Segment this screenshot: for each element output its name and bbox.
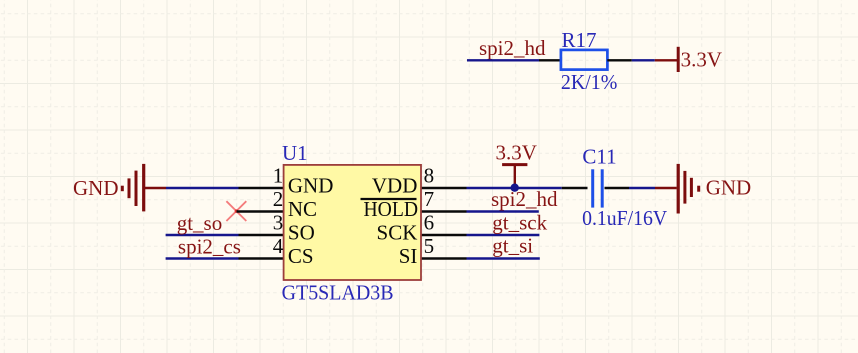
- svg-text:spi2_cs: spi2_cs: [178, 235, 241, 259]
- svg-text:3.3V: 3.3V: [681, 48, 722, 72]
- svg-text:1: 1: [273, 163, 284, 187]
- svg-text:spi2_hd: spi2_hd: [491, 187, 558, 211]
- svg-text:5: 5: [424, 234, 435, 258]
- svg-text:SCK: SCK: [377, 221, 418, 245]
- svg-text:GND: GND: [706, 176, 752, 200]
- svg-text:6: 6: [424, 210, 435, 234]
- svg-text:R17: R17: [562, 28, 597, 52]
- svg-text:2: 2: [273, 187, 284, 211]
- svg-text:GND: GND: [288, 174, 334, 198]
- svg-text:NC: NC: [288, 197, 317, 221]
- svg-text:gt_so: gt_so: [177, 211, 223, 235]
- svg-text:C11: C11: [582, 145, 616, 169]
- svg-text:7: 7: [424, 187, 435, 211]
- svg-text:spi2_hd: spi2_hd: [479, 36, 546, 60]
- svg-text:HOLD: HOLD: [364, 197, 419, 221]
- svg-text:VDD: VDD: [372, 174, 418, 198]
- svg-text:SI: SI: [399, 244, 418, 268]
- svg-text:GT5SLAD3B: GT5SLAD3B: [282, 280, 394, 304]
- svg-text:8: 8: [424, 163, 435, 187]
- svg-text:3.3V: 3.3V: [496, 141, 537, 165]
- svg-text:0.1uF/16V: 0.1uF/16V: [582, 206, 667, 230]
- svg-text:gt_si: gt_si: [492, 234, 533, 258]
- svg-text:GND: GND: [73, 176, 119, 200]
- svg-text:CS: CS: [288, 244, 314, 268]
- svg-text:SO: SO: [288, 221, 315, 245]
- svg-text:gt_sck: gt_sck: [492, 211, 547, 235]
- svg-text:3: 3: [273, 210, 284, 234]
- svg-text:2K/1%: 2K/1%: [561, 70, 618, 94]
- svg-text:U1: U1: [282, 141, 308, 165]
- svg-text:4: 4: [273, 234, 284, 258]
